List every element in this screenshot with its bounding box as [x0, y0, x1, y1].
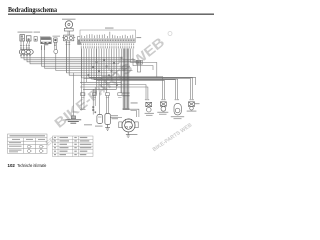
wire run L2	[24, 54, 136, 60]
pilot box	[34, 37, 37, 42]
label: bundle 2P	[131, 102, 138, 103]
connector cluster right of block	[136, 60, 142, 64]
dimmer switch block	[41, 38, 52, 46]
label: ignition	[53, 35, 61, 38]
horn lead ticks	[66, 43, 71, 45]
label: cdi	[95, 126, 103, 127]
horn connector	[62, 35, 75, 41]
fuse connector ticks	[20, 46, 30, 48]
block contact marks	[82, 32, 133, 39]
wire drop D4	[108, 49, 110, 71]
watermark registered mark	[168, 32, 172, 36]
wire drop D2	[103, 49, 105, 93]
wire lead winker1-b	[102, 49, 148, 100]
block side connector stack	[78, 37, 81, 45]
label: magneto left	[110, 115, 118, 116]
wire drop D1	[86, 49, 88, 83]
wire magneto left	[109, 116, 122, 118]
CDI unit	[105, 114, 111, 125]
label: winker2	[157, 112, 168, 113]
wire band R6	[97, 49, 165, 100]
label: brake switch	[187, 111, 197, 112]
wire lead winker1-a	[99, 49, 146, 100]
winker lamp 2	[160, 100, 166, 111]
wire band R5	[94, 49, 176, 100]
ground (frame, left)	[65, 116, 81, 123]
ignition switch	[54, 38, 58, 54]
wire band R2	[82, 49, 193, 100]
wire band R7	[102, 76, 162, 99]
svg-text:102: 102	[8, 163, 16, 168]
wire grid H1	[80, 81, 122, 83]
label: koplamp/stadslicht	[18, 31, 33, 34]
label: winker1	[145, 113, 154, 114]
wire fuse top leads	[20, 44, 22, 50]
spec table circles	[28, 145, 45, 152]
handlebar switch block	[80, 30, 136, 42]
wire band R1	[89, 49, 196, 86]
label: dimmer	[40, 36, 51, 37]
magneto bundle connector	[122, 93, 129, 96]
city light bulb	[26, 36, 31, 41]
flywheel magneto	[119, 119, 138, 132]
wire horn leads	[67, 31, 69, 35]
label: block top	[105, 28, 114, 29]
label: under magneto	[130, 134, 137, 135]
label: condenser	[84, 124, 92, 125]
wire drop D5	[111, 49, 113, 80]
condenser	[97, 115, 103, 124]
legend texts	[54, 137, 91, 155]
wire drop D6	[113, 49, 115, 76]
wire grid H2	[82, 84, 122, 86]
legend table	[53, 136, 94, 157]
wire stub drops	[81, 49, 83, 110]
svg-text:Bedradingsschema: Bedradingsschema	[8, 5, 57, 14]
label: magneto left2	[112, 118, 119, 119]
wire grid H3	[80, 86, 122, 88]
band code dashes	[81, 40, 134, 41]
wire run L5	[42, 45, 131, 66]
wire loop upper-right	[131, 49, 157, 78]
headlight unit	[20, 35, 25, 41]
wire run L6	[45, 45, 128, 68]
ground under magneto	[126, 132, 131, 137]
wire grid H4	[83, 88, 117, 90]
wire ignition leads	[54, 42, 56, 49]
ground under CDI	[105, 125, 110, 131]
connector row ticks	[81, 96, 122, 98]
connector row mid	[81, 93, 122, 96]
svg-text:Technische informatie: Technische informatie	[17, 163, 46, 168]
wire run L1	[21, 54, 121, 58]
wire code text row 2 under block	[81, 46, 134, 48]
wire dimmer leads	[41, 45, 43, 50]
wire drop D3	[106, 49, 108, 93]
wire band R3	[84, 49, 190, 100]
brake switch	[188, 100, 199, 110]
wire loop to magneto	[120, 58, 122, 93]
label: tail light	[171, 116, 184, 117]
wire drop D7	[116, 49, 118, 90]
wire run L8	[67, 41, 117, 73]
wire code text row 1 under block	[81, 43, 134, 45]
horn	[64, 21, 73, 31]
fuse bottom ticks	[20, 55, 31, 57]
wire run L7	[56, 54, 133, 71]
coil lead connectors	[92, 106, 96, 113]
wire drop D8	[118, 49, 120, 64]
wire run L3	[27, 54, 141, 62]
fuse holder	[19, 50, 33, 55]
wire coil leads	[92, 89, 94, 114]
wire ground drop	[72, 73, 74, 116]
spec table	[8, 134, 48, 153]
wire band R4	[92, 49, 178, 100]
bundle end connector	[123, 108, 130, 110]
header rule	[8, 13, 214, 15]
tail light	[174, 100, 181, 115]
wire run L4	[30, 54, 119, 64]
label: horn	[62, 19, 76, 20]
label: block right	[136, 37, 141, 38]
winker lamp 1	[145, 100, 152, 112]
wire headlight leads	[20, 41, 22, 44]
wire run L9	[69, 41, 114, 75]
wire magneto bundle	[123, 49, 129, 109]
grid junction connectors	[88, 57, 123, 86]
wire drop D9	[121, 49, 123, 93]
spec table texts	[9, 135, 45, 152]
